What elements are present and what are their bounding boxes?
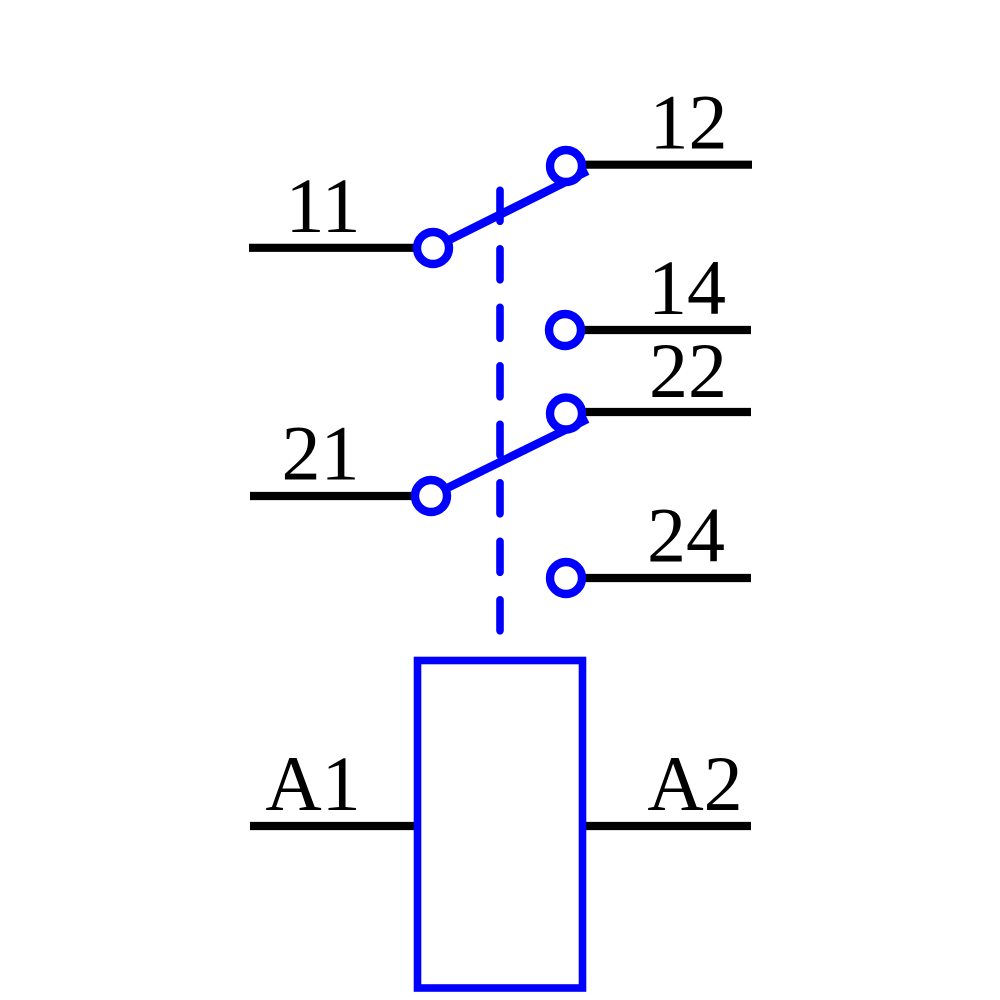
relay coil K (rectangle) (418, 661, 583, 989)
wire terminal A1 (250, 822, 416, 830)
contact blade K2 (21 common to 22) (431, 419, 588, 496)
movable contact pivot circle (terminal 21) (415, 480, 447, 512)
wire terminal 11 (249, 244, 416, 252)
svg-text:21: 21 (282, 410, 360, 497)
mechanical linkage (dashed actuator line) (496, 190, 504, 631)
NC contact circle (terminal 12) (550, 150, 582, 182)
contact blade K1 (11 common to 12) (433, 171, 588, 248)
svg-text:22: 22 (649, 327, 727, 414)
svg-text:24: 24 (647, 492, 725, 579)
wire terminal A2 (584, 822, 751, 830)
wire terminal 12 (584, 161, 752, 169)
svg-text:A2: A2 (647, 740, 742, 827)
svg-text:14: 14 (648, 244, 726, 331)
NC contact circle (terminal 22) (550, 398, 582, 430)
movable contact pivot circle (terminal 11) (417, 232, 449, 264)
wire terminal 21 (250, 492, 414, 500)
svg-text:A1: A1 (265, 740, 360, 827)
wire terminal 14 (584, 326, 751, 334)
NO contact circle (terminal 14) (549, 314, 581, 346)
NO contact circle (terminal 24) (550, 562, 582, 594)
svg-text:11: 11 (285, 162, 360, 249)
wire terminal 22 (584, 408, 751, 416)
wire terminal 24 (584, 574, 751, 582)
svg-text:12: 12 (650, 79, 728, 166)
